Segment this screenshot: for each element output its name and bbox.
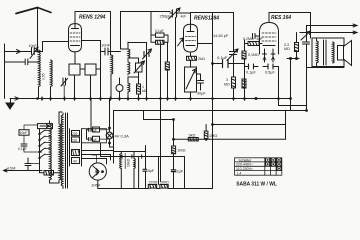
svg-text:4nF: 4nF — [181, 14, 187, 18]
svg-text:0,5µF: 0,5µF — [265, 71, 275, 75]
svg-text:2µF: 2µF — [177, 169, 184, 173]
resistor 0.2M — [224, 61, 236, 99]
svg-text:1MΩ: 1MΩ — [177, 149, 185, 153]
tube V1 RENS1294 — [69, 24, 101, 99]
lamp — [106, 99, 113, 148]
wire across y156 — [101, 143, 185, 158]
choke — [120, 152, 126, 189]
transformer tap column — [70, 129, 82, 166]
trimmer cap box — [128, 58, 145, 77]
svg-text:30µF: 30µF — [197, 92, 206, 96]
svg-text:0,1µF: 0,1µF — [217, 55, 228, 60]
svg-text:MΩ: MΩ — [284, 47, 290, 51]
wire hv line — [114, 152, 130, 164]
wire bottom verts — [159, 157, 185, 189]
capacitor 0,1uF osc — [18, 140, 42, 152]
transformer output — [312, 38, 344, 67]
grid leak RC — [151, 12, 168, 99]
svg-text:14-50 pF: 14-50 pF — [213, 34, 229, 38]
wire pickup — [4, 169, 43, 172]
svg-text:2kΩ: 2kΩ — [198, 57, 205, 61]
mains tap frame — [82, 99, 107, 143]
power transformer — [61, 113, 67, 189]
svg-text:3kΩ: 3kΩ — [189, 134, 196, 138]
circle trimmer bottom — [116, 78, 123, 99]
resistor 0.3M right — [284, 33, 299, 59]
switch contacts — [40, 130, 46, 158]
svg-text:220: 220 — [72, 132, 78, 136]
capacitor 10nF osc — [19, 125, 37, 140]
wire top line B — [121, 11, 171, 13]
svg-text:0,2MΩ: 0,2MΩ — [243, 37, 254, 41]
svg-text:µF: µF — [93, 129, 97, 133]
oscillator coil 1 — [50, 121, 52, 183]
svg-text:250pF: 250pF — [160, 13, 172, 18]
wire transformer bottom — [312, 67, 344, 68]
trimmer cap small — [61, 78, 68, 99]
svg-text:110-200V=: 110-200V= — [236, 167, 253, 171]
svg-text:RENS1284: RENS1284 — [194, 16, 219, 22]
coil IF1 primary — [111, 55, 113, 99]
wire jog — [144, 111, 174, 147]
svg-text:0,1µF: 0,1µF — [246, 71, 256, 75]
svg-text:10nF: 10nF — [101, 43, 111, 48]
wire screen v2 — [212, 13, 214, 189]
wire grid tube1 — [43, 41, 69, 43]
wire — [128, 42, 147, 44]
svg-text:0,1µF: 0,1µF — [18, 147, 27, 151]
svg-text:0,1MΩ: 0,1MΩ — [248, 53, 259, 57]
svg-text:1064: 1064 — [91, 183, 101, 188]
svg-text:MΩ: MΩ — [224, 83, 230, 87]
trimmer 14-50pF — [227, 13, 238, 63]
capacitor 0.5uF — [263, 64, 307, 106]
wire bottom bus — [98, 188, 213, 190]
capacitor 10nF — [101, 48, 121, 55]
potentiometer box — [185, 67, 197, 99]
capacitor 8uF — [143, 169, 155, 189]
svg-text:10pF: 10pF — [29, 44, 38, 48]
box cathode 2 — [85, 64, 96, 75]
resistor 0.3M horizontal — [243, 37, 262, 46]
svg-text:µF: µF — [93, 138, 97, 142]
wire vert x160 — [160, 99, 162, 182]
wire padder down — [175, 18, 177, 99]
resistor 220 — [148, 181, 157, 188]
wire to speaker right — [307, 24, 358, 27]
svg-text:4V 0,3A: 4V 0,3A — [115, 134, 130, 139]
resistor 2k — [187, 55, 197, 67]
speaker — [338, 41, 352, 66]
capacitor below — [197, 74, 206, 96]
resistor 500 — [160, 181, 169, 188]
trimmer padder 250pF — [169, 8, 191, 19]
svg-text:RES 164: RES 164 — [271, 15, 291, 21]
capacitor 4.5nF — [7, 158, 31, 171]
wire top line D — [269, 13, 311, 39]
wire anode top V1 — [75, 12, 111, 56]
coil L1 — [39, 50, 41, 99]
oscillator coil 2 — [50, 112, 63, 183]
wire C main HT — [114, 68, 307, 157]
resistor 3k horiz — [188, 134, 198, 141]
trimmer arrow right — [300, 26, 311, 68]
resistor vert — [137, 77, 147, 99]
coil IF2 c — [128, 77, 130, 99]
capacitor pair left of lamp — [87, 127, 110, 142]
wire staircase — [213, 111, 286, 140]
svg-text:0,55: 0,55 — [42, 73, 46, 80]
capacitor 0.1uF — [245, 64, 259, 69]
svg-text:10kΩ: 10kΩ — [127, 158, 131, 167]
svg-text:10nF: 10nF — [20, 131, 28, 135]
svg-text:Fe: Fe — [133, 163, 137, 167]
wire top line C — [191, 12, 234, 14]
wire antenna input 2 — [5, 59, 39, 65]
svg-text:kΩ: kΩ — [142, 89, 147, 93]
resistor 1M vert — [172, 138, 186, 169]
svg-text:3: 3 — [226, 78, 228, 82]
wire node — [287, 58, 299, 60]
table voltage selector — [235, 158, 282, 175]
wire ground bus — [10, 98, 291, 100]
capacitor 0.1uF coupling — [213, 60, 245, 68]
coil L2 — [51, 60, 53, 99]
tube V2 RENS1284 — [178, 13, 213, 56]
svg-text:1,4: 1,4 — [237, 171, 242, 175]
svg-text:SABA 311 W / WL: SABA 311 W / WL — [236, 181, 277, 187]
resistor 0.4M vert — [242, 44, 259, 99]
coil IF2 a — [121, 42, 130, 58]
resistor on grid leak branch — [165, 42, 169, 98]
svg-text:1MΩ: 1MΩ — [209, 134, 217, 138]
svg-text:RENS 1294: RENS 1294 — [79, 15, 106, 21]
capacitor input 10pF — [30, 42, 43, 59]
resistor 1M vert b — [204, 125, 217, 141]
svg-text:110: 110 — [72, 138, 77, 142]
resistor Fe branch — [133, 152, 137, 189]
bus ticks — [37, 63, 308, 126]
rectifier wires — [82, 151, 114, 165]
wire vert x138.6 — [138, 157, 140, 189]
svg-text:500Ω: 500Ω — [160, 181, 169, 185]
svg-text:0,1µF: 0,1µF — [155, 29, 164, 33]
svg-text:Schalter: Schalter — [239, 158, 253, 162]
resistor lower vert — [242, 79, 246, 88]
tube V3 RES164 — [260, 13, 279, 63]
trimmer arrow 2 — [143, 43, 152, 99]
ground — [6, 99, 14, 110]
resistor in osc block — [44, 171, 54, 176]
box cathode 1 — [69, 64, 80, 75]
tube V4 rectifier — [89, 163, 106, 189]
antenna — [16, 8, 51, 52]
svg-text:8µF: 8µF — [148, 169, 155, 173]
capacitor 5pF — [253, 33, 260, 39]
svg-text:220Ω: 220Ω — [149, 181, 158, 185]
oscillator switch block — [30, 124, 59, 175]
capacitor 2uF — [171, 169, 183, 188]
coil IF2 b — [128, 58, 130, 75]
wire antenna input — [5, 44, 32, 99]
wire L1 to selector — [290, 59, 292, 111]
